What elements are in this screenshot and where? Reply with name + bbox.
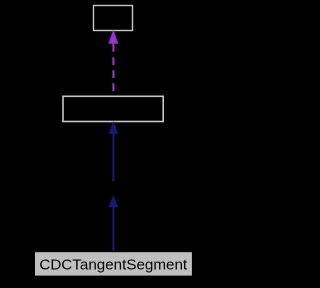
node: top undocumented class box (empty, grey border) xyxy=(94,6,133,31)
node: middle undocumented class box (empty, grey border) xyxy=(63,96,163,121)
svg-text:CDCTangentSegment: CDCTangentSegment xyxy=(39,257,188,274)
edge: solid blue inheritance arrow (CDCTangentSegment to hidden node) xyxy=(109,196,118,251)
edge: dashed purple template/usage arrow (middle box to top box) xyxy=(109,30,118,95)
node: CDCTangentSegment (current class, grey filled box) xyxy=(35,252,192,275)
edge: solid blue inheritance arrow (hidden node to middle box) xyxy=(109,122,118,181)
